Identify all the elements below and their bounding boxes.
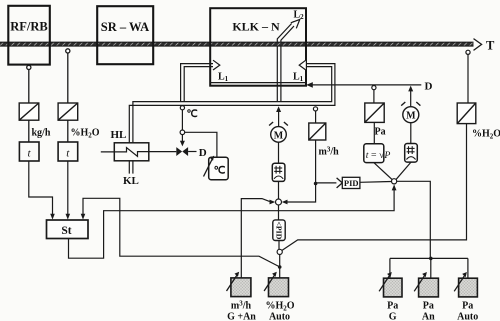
wire m3/h column xyxy=(313,107,317,111)
controller PID horizontal xyxy=(316,182,337,184)
svg-text:t = √P: t = √P xyxy=(366,150,391,161)
svg-text:kg/h: kg/h xyxy=(32,128,51,139)
wire circle2 output right and down xyxy=(397,181,431,258)
svg-text:PID: PID xyxy=(344,178,359,188)
actuator Pa G xyxy=(379,272,402,297)
thermo tap on duct xyxy=(180,106,184,110)
node summing circle 1 xyxy=(276,199,282,205)
wire t2 to St xyxy=(67,161,69,215)
motor M2 xyxy=(401,102,420,123)
svg-text:Auto: Auto xyxy=(269,312,290,321)
positioner 1 xyxy=(272,163,285,181)
function box t=sqrt(P) xyxy=(364,144,384,163)
wire St output to circle2 xyxy=(69,186,395,259)
svg-text:G: G xyxy=(389,312,397,321)
svg-text:RF/RB: RF/RB xyxy=(10,20,48,34)
actuator Pa Auto xyxy=(454,272,477,297)
arrow L1 left (hollow, pointing right) xyxy=(213,60,220,70)
duct riser through KLK-N (to L2 and bottom duct) xyxy=(277,46,281,102)
node temp junction xyxy=(180,130,185,135)
t box 2 xyxy=(58,142,78,161)
svg-text:Pa: Pa xyxy=(375,127,386,138)
box SR-WA xyxy=(97,6,153,64)
svg-text:M: M xyxy=(406,111,416,122)
t box 1 xyxy=(19,142,39,161)
controller PID vertical xyxy=(278,205,280,220)
node junction dot m3/h xyxy=(314,182,318,186)
svg-text:KL: KL xyxy=(123,175,139,187)
transducer kg/h xyxy=(19,103,39,120)
wire to m3/h actuator (corner line with arrow into circle1) xyxy=(241,199,269,278)
wire m3/h feedback into circle1 xyxy=(287,184,315,203)
wire valve to D xyxy=(188,151,196,153)
svg-text:Pa: Pa xyxy=(423,301,434,312)
svg-text:%H2O: %H2O xyxy=(71,128,100,140)
arrow T xyxy=(474,39,482,51)
wire kg/h tap xyxy=(27,65,31,142)
svg-text:St: St xyxy=(61,225,71,237)
svg-text:D: D xyxy=(199,147,207,159)
transducer %H2O left xyxy=(58,103,78,120)
duct: right L1 U-shape and heater riser xyxy=(129,64,335,143)
valve (bowtie) xyxy=(176,147,182,156)
setpoint box °C with arrow xyxy=(209,157,229,180)
svg-text:An: An xyxy=(422,312,435,321)
wire Pa tap xyxy=(372,86,376,90)
svg-text:Pa: Pa xyxy=(462,301,473,312)
duct below heater KL xyxy=(129,161,133,174)
wire to temp setpoint box xyxy=(185,132,217,157)
svg-text:Auto: Auto xyxy=(457,312,478,321)
svg-text:G +An: G +An xyxy=(227,312,256,321)
actuator m3/h G+An xyxy=(227,272,251,297)
node dot xyxy=(278,265,282,269)
transducer m3/h xyxy=(309,123,326,140)
svg-text:M: M xyxy=(274,130,284,141)
wire Pa to t=sqrt box xyxy=(373,122,375,143)
svg-text:Pa: Pa xyxy=(387,301,398,312)
actuator Pa An xyxy=(414,272,438,297)
positioner 2 (rect with # and arc) xyxy=(405,144,418,163)
wire %H2O tap xyxy=(66,49,70,142)
wire D line with arrow into box corner xyxy=(306,82,313,88)
box RF/RB xyxy=(8,6,50,65)
duct: left L1 branch xyxy=(181,64,214,102)
svg-text:℃: ℃ xyxy=(214,165,226,177)
actuator %H2O Auto xyxy=(264,272,288,297)
transducer %H2O right xyxy=(457,103,476,124)
wire M2 to positioner xyxy=(410,123,412,144)
wire Pa distribution xyxy=(390,257,468,259)
svg-text:D: D xyxy=(425,81,433,93)
node summing circle 2 xyxy=(392,179,397,184)
node circle 3 xyxy=(277,249,282,254)
svg-text:HL: HL xyxy=(111,129,127,141)
arrow L1 right (hollow, pointing left) xyxy=(299,60,306,70)
wire t1 to St xyxy=(29,161,53,215)
wire feedback to St (third input) xyxy=(83,198,280,267)
svg-text:<PID: <PID xyxy=(275,221,284,239)
motor M1 xyxy=(269,122,288,142)
svg-text:T: T xyxy=(486,39,495,53)
svg-text:KLK – N: KLK – N xyxy=(232,20,280,34)
svg-text:SR – WA: SR – WA xyxy=(101,20,149,34)
box KLK-N xyxy=(210,8,306,86)
wire M2 branch with up arrow xyxy=(408,86,413,92)
arrow L2 diagonal (hollow) xyxy=(277,19,300,42)
wire M1 tap with up arrow xyxy=(276,106,281,112)
main conveyor line T xyxy=(0,42,474,46)
wire %H2O right column xyxy=(466,50,470,54)
svg-text:℃: ℃ xyxy=(187,109,198,120)
wire %H2O feedback to circle3 xyxy=(282,124,467,251)
box St xyxy=(47,220,89,239)
steam line through heater (zigzag) xyxy=(101,148,177,157)
svg-text:%H2O: %H2O xyxy=(472,129,500,141)
wire diagonals into summing circle2 xyxy=(374,163,392,180)
transducer Pa xyxy=(365,103,384,122)
